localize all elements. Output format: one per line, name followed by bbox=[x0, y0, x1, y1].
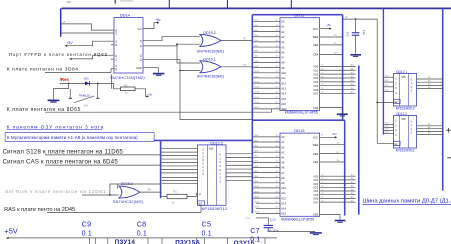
svg-text:КР1533КП12: КР1533КП12 bbox=[202, 206, 228, 211]
svg-text:ЧТ: ЧТ bbox=[243, 64, 247, 67]
mux DD10.2 subtitle bbox=[202, 206, 228, 211]
svg-text:VD1: VD1 bbox=[84, 77, 90, 81]
ground reset switch bbox=[48, 100, 60, 102]
svg-text:C8: C8 bbox=[137, 219, 147, 228]
node label data bus bbox=[363, 199, 451, 205]
node label RAS bbox=[4, 207, 75, 213]
svg-text:КМ684000Ц-1Р-8Р55: КМ684000Ц-1Р-8Р55 bbox=[285, 110, 318, 114]
wire +5V bottom rail bbox=[6, 237, 277, 239]
mux DD10.2 C pin bbox=[199, 192, 201, 196]
wire top riser C bbox=[290, 0, 292, 8]
svg-text:A11: A11 bbox=[281, 76, 286, 80]
wire Sel Rom branch up bbox=[110, 184, 161, 195]
svg-text:Sel Rom к плате пентагон на 12: Sel Rom к плате пентагон на 12D61 bbox=[5, 189, 106, 195]
resistor R1 bbox=[167, 194, 187, 198]
wire DD14 unconnected stubs bbox=[111, 45, 114, 59]
ic DD13 subtitle bbox=[281, 217, 314, 221]
svg-text:A11: A11 bbox=[281, 191, 286, 195]
wire +5 E-net horizontal bbox=[343, 17, 377, 20]
svg-text:A7: A7 bbox=[281, 171, 285, 175]
svg-text:2Б12: 2Б12 bbox=[254, 196, 260, 198]
node memory box top edge bbox=[252, 14, 342, 16]
wire DD11 WE stub bbox=[320, 35, 342, 37]
wire R2 left bbox=[111, 75, 113, 89]
wire /Res to R pullup bbox=[114, 83, 121, 88]
svg-text:MS: MS bbox=[402, 117, 406, 121]
mux DD12.1 label bbox=[396, 70, 407, 74]
wire mux input bundle A1-A8 bbox=[161, 149, 197, 173]
wire port 7FFD to DD14 bbox=[69, 55, 114, 60]
svg-text:I/O3: I/O3 bbox=[313, 186, 318, 190]
svg-text:+5v: +5v bbox=[155, 18, 161, 22]
capacitor C13 bbox=[264, 225, 273, 231]
svg-text:+5v: +5v bbox=[332, 132, 337, 136]
ic DD11 label bbox=[294, 12, 305, 17]
svg-text:A9: A9 bbox=[281, 181, 285, 185]
wire switch ground branch bbox=[54, 83, 71, 99]
svg-text:+5v: +5v bbox=[326, 23, 331, 27]
svg-text:C: C bbox=[115, 58, 117, 62]
svg-text:СЕ: СЕ bbox=[336, 160, 340, 162]
svg-text:VSS: VSS bbox=[313, 106, 318, 110]
ground DD14 GND bbox=[143, 68, 165, 76]
svg-text:ЗП: ЗП bbox=[336, 143, 339, 145]
wire E-net to DD12.2 E2 bbox=[377, 142, 393, 144]
svg-text:0.1µ: 0.1µ bbox=[362, 30, 366, 36]
resistor R2 ref bbox=[124, 83, 128, 87]
svg-text:ПЗУ15А: ПЗУ15А bbox=[175, 240, 200, 244]
wire E-net to DD12.1 E2 bbox=[377, 101, 393, 103]
gate DD15.3 body bbox=[119, 186, 140, 198]
node memory box left edge bus bbox=[251, 15, 253, 214]
mux DD10.2 body bbox=[198, 145, 227, 205]
svg-text:I/O4: I/O4 bbox=[313, 80, 318, 84]
svg-text:DD13: DD13 bbox=[294, 128, 305, 133]
wire C13 to ground bbox=[268, 231, 315, 233]
svg-text:CE#: CE# bbox=[313, 160, 319, 164]
node label OE net bbox=[243, 64, 247, 67]
wire mux select bundle bbox=[162, 177, 198, 183]
svg-text:D: D bbox=[115, 54, 117, 58]
svg-text:К Мультиплексорам памяти А1-А8: К Мультиплексорам памяти А1-А8 (к панеля… bbox=[7, 135, 138, 140]
node label K plate 3D84 bbox=[7, 67, 79, 73]
svg-text:1Б11: 1Б11 bbox=[254, 76, 260, 78]
svg-text:Шина данных памяти Д0-Д7 (Д1-Д: Шина данных памяти Д0-Д7 (Д1-Д8) bbox=[363, 199, 451, 205]
svg-text:A6: A6 bbox=[281, 50, 285, 54]
node label Sel Rom bbox=[5, 189, 106, 195]
svg-text:A3: A3 bbox=[281, 150, 285, 154]
svg-text:КР1533КП12: КР1533КП12 bbox=[396, 107, 415, 111]
svg-text:Сигнал S128 к плате пентагон н: Сигнал S128 к плате пентагон на 11D65 bbox=[3, 149, 124, 155]
svg-text:1Б15: 1Б15 bbox=[254, 97, 260, 99]
capacitor C5 value bbox=[202, 231, 212, 238]
svg-text:I/O4: I/O4 bbox=[313, 189, 318, 193]
capacitor C9 value bbox=[82, 231, 92, 238]
svg-text:C5: C5 bbox=[202, 219, 212, 228]
wire top bus left drop bbox=[60, 8, 62, 36]
wire shared net down to DD15.1 bbox=[176, 43, 200, 63]
node panel box edges bbox=[90, 238, 266, 244]
ic DD11 subtitle bbox=[285, 110, 318, 114]
ic DD14 pin labels left bbox=[115, 28, 117, 71]
node DD12.2 input labels bbox=[385, 123, 389, 134]
svg-text:Vcc: Vcc bbox=[137, 27, 142, 31]
svg-text:MS: MS bbox=[402, 75, 406, 79]
wire DD13 WE stub bbox=[320, 143, 344, 145]
wire DD15.1 output OE bbox=[221, 66, 252, 68]
svg-text:A1: A1 bbox=[281, 140, 285, 144]
wire DD11 OE stub bbox=[320, 43, 342, 45]
node label Signal CAS bbox=[3, 160, 119, 166]
svg-text:I/O6: I/O6 bbox=[313, 88, 318, 92]
svg-text:2Б13: 2Б13 bbox=[254, 202, 260, 204]
op-amp U DD14 label bbox=[120, 12, 131, 17]
ic DD11 body bbox=[280, 18, 320, 111]
svg-text:E2: E2 bbox=[394, 142, 398, 146]
gate DD15.2 subtitle bbox=[197, 49, 224, 53]
node multiplexer bus vertical bbox=[160, 140, 162, 198]
mux DD12.2 pin numbers bbox=[395, 120, 412, 137]
svg-text:A13: A13 bbox=[281, 201, 286, 205]
mux DD10.2 pin numbers bbox=[202, 149, 221, 184]
diode VD1 label bbox=[84, 77, 90, 81]
svg-text:I/O1: I/O1 bbox=[313, 178, 318, 182]
svg-text:OE#: OE# bbox=[313, 43, 319, 47]
wire DD13 data bundle bbox=[320, 175, 356, 203]
svg-text:S: S bbox=[115, 64, 117, 68]
node label K plate 8D65 bbox=[7, 107, 81, 113]
gate DD15.2 label bbox=[203, 31, 215, 35]
svg-text:Q: Q bbox=[140, 53, 142, 57]
node right bus A bbox=[382, 8, 384, 134]
svg-text:+5V: +5V bbox=[66, 41, 73, 45]
resistor R1 value bbox=[172, 200, 175, 204]
capacitor C10 value bbox=[362, 30, 366, 36]
svg-text:I/O7: I/O7 bbox=[313, 92, 318, 96]
node plus mark bbox=[446, 128, 451, 133]
svg-text:R: R bbox=[115, 43, 117, 47]
mux DD10.2 label bbox=[210, 141, 222, 145]
node label DD15.3 out net bbox=[147, 188, 151, 191]
wire /Res net bbox=[60, 83, 114, 85]
svg-text:R1: R1 bbox=[173, 190, 177, 194]
node multiplexer bus horizontal bbox=[154, 139, 252, 141]
svg-text:C7: C7 bbox=[250, 226, 260, 235]
wire R1 left bbox=[161, 195, 167, 197]
svg-text:A12: A12 bbox=[281, 81, 286, 85]
svg-text:E2: E2 bbox=[394, 100, 398, 104]
node label 380 bbox=[67, 0, 72, 4]
svg-text:A15: A15 bbox=[281, 212, 286, 216]
wire DD12.1 outputs bbox=[417, 79, 443, 89]
node label WE net bbox=[243, 38, 246, 41]
svg-text:A1: A1 bbox=[281, 25, 285, 29]
node label Port 7FFD bbox=[9, 52, 108, 57]
svg-text:A5: A5 bbox=[281, 45, 285, 49]
svg-text:ПОЗ: ПОЗ bbox=[245, 218, 250, 220]
capacitor C8 ref bbox=[137, 219, 147, 228]
wire C13 feed bbox=[245, 218, 268, 225]
svg-text:+5V: +5V bbox=[4, 227, 17, 236]
wire DD15.3 output bbox=[140, 191, 161, 193]
mux DD10.2 E2 pin bbox=[198, 201, 205, 206]
mux DD12.2 body bbox=[394, 115, 417, 148]
node DD13 data net labels bbox=[351, 175, 354, 203]
svg-text:A9: A9 bbox=[281, 66, 285, 70]
svg-text:C: C bbox=[199, 192, 201, 196]
svg-text:+5v: +5v bbox=[147, 92, 152, 96]
capacitor C10 bbox=[352, 19, 360, 54]
svg-text:0.1: 0.1 bbox=[82, 231, 92, 238]
wire R1 right to C pin bbox=[187, 193, 198, 196]
node DD12.1 output labels bbox=[428, 76, 431, 89]
capacitor C13 value bbox=[267, 228, 279, 232]
svg-text:R2: R2 bbox=[124, 83, 128, 87]
wire S128 line bbox=[45, 154, 161, 156]
wire RAS line bbox=[47, 205, 201, 212]
svg-text:SN74HC32(N/E): SN74HC32(N/E) bbox=[197, 49, 224, 53]
svg-text:Q: Q bbox=[140, 39, 142, 43]
svg-text:GND: GND bbox=[136, 66, 142, 70]
ground C10 bbox=[350, 55, 361, 57]
node panel label PZU14 bbox=[115, 239, 136, 244]
wire DD12.1 inputs bbox=[383, 77, 393, 91]
svg-text:К плате пентагон на 3D84: К плате пентагон на 3D84 bbox=[7, 67, 79, 73]
wire DD13 OE stub bbox=[320, 152, 344, 154]
node DD11 data net labels bbox=[351, 65, 354, 94]
node +5V bottom label bbox=[4, 227, 17, 236]
node label Signal S128 bbox=[3, 149, 124, 155]
svg-text:A14: A14 bbox=[281, 92, 286, 96]
svg-text:SN74HC32(N/E): SN74HC32(N/E) bbox=[113, 200, 144, 204]
svg-text:A12: A12 bbox=[281, 196, 286, 200]
svg-text:2Б15: 2Б15 bbox=[254, 212, 260, 214]
wire E-net vertical bbox=[376, 19, 378, 103]
ic DD14 pin labels right bbox=[136, 27, 142, 70]
wire CAS line bbox=[45, 164, 161, 166]
wire DD11 VCC arrow bbox=[320, 27, 332, 29]
gate DD15.1 body bbox=[200, 61, 221, 73]
wire R2 right to +5v bbox=[135, 89, 149, 98]
svg-text:КР1533КП12: КР1533КП12 bbox=[396, 149, 415, 153]
svg-text:A2: A2 bbox=[281, 145, 285, 149]
node label 1T bbox=[63, 21, 66, 24]
svg-text:I/O0: I/O0 bbox=[313, 65, 318, 69]
svg-text:A13: A13 bbox=[281, 86, 286, 90]
diode VD1 bbox=[85, 81, 90, 85]
svg-text:I/O1: I/O1 bbox=[313, 68, 318, 72]
svg-text:I/O6: I/O6 bbox=[313, 197, 318, 201]
svg-text:Q: Q bbox=[140, 58, 142, 62]
node data bus vertical bbox=[358, 65, 360, 214]
switch SA1 ref label bbox=[84, 105, 89, 108]
node label K panelyam OZU bbox=[7, 124, 105, 130]
svg-text:WE#: WE# bbox=[313, 35, 319, 39]
switch SA1 bbox=[69, 83, 100, 102]
wire DD14 Q1 to DD15.2 input A bbox=[143, 37, 200, 41]
node minus mark bbox=[447, 157, 451, 159]
svg-text:ЗП: ЗП bbox=[334, 35, 337, 37]
svg-text:A6: A6 bbox=[281, 166, 285, 170]
wire 8D65 line bbox=[45, 109, 272, 112]
node +5v label DD11 bbox=[326, 23, 331, 27]
svg-text:1М: 1М bbox=[345, 17, 348, 19]
capacitor C9 ref bbox=[82, 219, 92, 228]
svg-text:ПВ: ПВ bbox=[147, 188, 151, 191]
wire DD11 address bundle bbox=[253, 21, 280, 109]
gate DD15.1 label bbox=[203, 57, 215, 61]
svg-text:1Б16: 1Б16 bbox=[254, 102, 260, 104]
node /Res label bbox=[60, 77, 70, 82]
node panel label PZU15 bbox=[175, 240, 200, 244]
svg-text:C9: C9 bbox=[82, 219, 92, 228]
wire top gray stub bbox=[120, 0, 133, 2]
resistor R1 ref bbox=[173, 190, 177, 194]
svg-text:2Б10: 2Б10 bbox=[254, 186, 260, 188]
svg-text:1Б14: 1Б14 bbox=[254, 92, 260, 94]
svg-text:I/O2: I/O2 bbox=[313, 182, 318, 186]
svg-text:OE#: OE# bbox=[313, 152, 319, 156]
node +5v label R2 bbox=[147, 92, 152, 96]
wire DD12.2 inputs bbox=[383, 125, 393, 134]
mux DD12.2 E2 pin bbox=[394, 141, 401, 146]
svg-text:A4: A4 bbox=[281, 156, 285, 160]
node memory box divider edge bbox=[252, 119, 344, 121]
svg-text:S: S bbox=[115, 40, 117, 44]
svg-text:A5: A5 bbox=[281, 161, 285, 165]
wire net S128 vertical bbox=[180, 71, 252, 120]
ic DD13 right pin labels bbox=[313, 136, 319, 217]
svg-text:1Б12: 1Б12 bbox=[254, 81, 260, 83]
mux DD12.2 label bbox=[396, 112, 407, 116]
mux DD12.2 subtitle bbox=[396, 149, 415, 153]
svg-text:MS: MS bbox=[209, 146, 213, 150]
capacitor C10 ref bbox=[345, 31, 349, 36]
mux DD12.1 E2 pin bbox=[394, 99, 401, 104]
ic DD13 label bbox=[294, 128, 305, 133]
node panel label OZU16 bbox=[234, 240, 255, 244]
gate DD15.3 label bbox=[121, 182, 133, 186]
node right bus B bbox=[442, 8, 444, 190]
node +5V left arrow label bbox=[66, 41, 73, 45]
svg-text:A0: A0 bbox=[281, 20, 285, 24]
svg-text:1Б17: 1Б17 bbox=[254, 107, 260, 109]
svg-text:1Б10: 1Б10 bbox=[254, 71, 260, 73]
svg-text:SN74HC32(N/E): SN74HC32(N/E) bbox=[197, 75, 224, 79]
node label K multiplexoram bbox=[5, 133, 154, 142]
ic DD13 pin numbers left bbox=[276, 135, 279, 214]
svg-text:R: R bbox=[115, 67, 117, 71]
svg-text:C10: C10 bbox=[345, 31, 349, 36]
svg-text:ПЗУ14: ПЗУ14 bbox=[115, 239, 136, 244]
capacitor C7 value bbox=[250, 237, 260, 244]
svg-text:A15: A15 bbox=[281, 97, 286, 101]
svg-text:I/O7: I/O7 bbox=[313, 200, 318, 204]
svg-text:C: C bbox=[115, 32, 117, 36]
resistor R2 bbox=[121, 87, 135, 91]
gate DD15.3 subtitle bbox=[113, 200, 144, 204]
wire gate DD15.3 input A bbox=[116, 184, 118, 189]
gate DD15.1 subtitle bbox=[197, 75, 224, 79]
mux DD12.1 body bbox=[394, 73, 417, 106]
svg-text:КМ684000Ц-1Р-8Р55: КМ684000Ц-1Р-8Р55 bbox=[281, 217, 314, 221]
node DD11 address net labels bbox=[254, 20, 260, 110]
ground DD11 VSS bbox=[320, 108, 348, 116]
ground C13 bbox=[310, 233, 322, 235]
svg-text:E2: E2 bbox=[199, 202, 203, 206]
ground DD13 VSS bbox=[320, 214, 346, 222]
svg-text:0.1: 0.1 bbox=[202, 231, 212, 238]
mux DD12.1 subtitle bbox=[396, 107, 415, 111]
ic DD11 address pin labels bbox=[281, 20, 287, 112]
svg-text:A8: A8 bbox=[281, 61, 285, 65]
svg-text:0.1: 0.1 bbox=[137, 231, 147, 238]
svg-text:OE2: OE2 bbox=[281, 107, 287, 111]
wire DD12.2 outputs bbox=[417, 126, 443, 135]
capacitor C13 ref bbox=[270, 217, 276, 221]
node DD12.2 output labels bbox=[428, 123, 431, 135]
wire DD11 CE stub bbox=[320, 53, 342, 55]
node +5v label DD13 bbox=[332, 132, 337, 136]
node DD13 address net labels bbox=[254, 135, 260, 214]
ic DD13 address pin labels bbox=[281, 135, 286, 216]
svg-text:WE#: WE# bbox=[313, 143, 319, 147]
svg-text:2Б14: 2Б14 bbox=[254, 207, 260, 209]
wire top riser A bbox=[168, 0, 170, 8]
node memory box right edge upper bbox=[342, 15, 344, 121]
wire Sel Rom to gate bbox=[82, 194, 119, 196]
node memory box right edge lower bbox=[344, 120, 346, 215]
svg-text:CE#: CE# bbox=[313, 53, 319, 57]
capacitor C7 ref bbox=[250, 226, 260, 235]
wire DD14 D input from bus bbox=[61, 24, 114, 30]
svg-text:СЕ: СЕ bbox=[334, 53, 338, 55]
svg-text:VCC: VCC bbox=[313, 136, 319, 140]
capacitor C8 value bbox=[137, 231, 147, 238]
svg-text:A10: A10 bbox=[281, 71, 286, 75]
svg-text:Порт #7FFD к плате пентагон 9Q: Порт #7FFD к плате пентагон 9Q62 bbox=[9, 52, 108, 57]
svg-text:A10: A10 bbox=[281, 186, 286, 190]
wire DD14 C input from bus bbox=[61, 32, 114, 34]
svg-text:ПКН125: ПКН125 bbox=[79, 93, 90, 97]
svg-text:A2: A2 bbox=[281, 30, 285, 34]
wire DD13 CE stub bbox=[320, 160, 344, 162]
wire top riser B bbox=[226, 0, 228, 8]
svg-text:Сигнал CAS к плате пентагон на: Сигнал CAS к плате пентагон на 6D45 bbox=[3, 160, 119, 166]
svg-text:A16: A16 bbox=[281, 102, 286, 106]
svg-text:I/O3: I/O3 bbox=[313, 76, 318, 80]
svg-text:2Б11: 2Б11 bbox=[254, 191, 260, 193]
svg-text:I/O5: I/O5 bbox=[313, 193, 318, 197]
capacitor C5 ref bbox=[202, 219, 212, 228]
switch SA1 type label bbox=[79, 93, 90, 97]
svg-text:A0: A0 bbox=[281, 135, 285, 139]
wire DD14 Q1n to gates shared bbox=[143, 44, 200, 46]
svg-text:0.1: 0.1 bbox=[250, 237, 260, 244]
wire DD14 S pull bbox=[65, 41, 114, 47]
ic DD14 subtitle bbox=[110, 76, 145, 80]
wire DD13 VCC arrow bbox=[320, 135, 338, 139]
node +5v label DD14 bbox=[155, 18, 161, 22]
svg-text:1Б13: 1Б13 bbox=[254, 87, 260, 89]
ic DD14 body bbox=[114, 18, 143, 73]
svg-text:DD11: DD11 bbox=[294, 12, 305, 17]
svg-text:A3: A3 bbox=[281, 35, 285, 39]
wire top tick bbox=[114, 0, 116, 4]
svg-text:A14: A14 bbox=[281, 207, 286, 211]
gate DD15.2 body bbox=[200, 35, 221, 47]
wire DD15.2 output WE bbox=[221, 40, 252, 42]
